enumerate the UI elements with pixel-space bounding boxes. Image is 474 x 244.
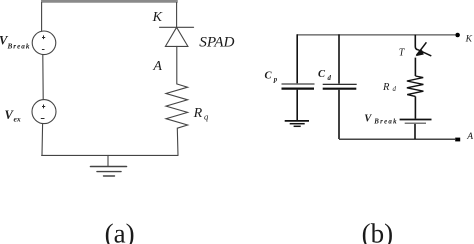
svg-text:q: q [204, 112, 209, 122]
svg-text:Break: Break [373, 118, 398, 125]
svg-text:(b): (b) [362, 219, 393, 244]
svg-text:T: T [399, 47, 406, 58]
svg-text:R: R [382, 82, 390, 93]
svg-text:C: C [265, 71, 273, 82]
svg-text:p: p [273, 76, 278, 83]
svg-text:K: K [465, 35, 473, 45]
svg-text:K: K [152, 10, 163, 25]
svg-text:SPAD: SPAD [199, 34, 234, 51]
svg-text:d: d [328, 75, 332, 82]
svg-text:A: A [466, 132, 473, 142]
svg-text:C: C [318, 69, 326, 80]
svg-text:V: V [364, 114, 372, 125]
svg-text:Break: Break [7, 42, 31, 50]
svg-text:R: R [193, 106, 203, 121]
svg-text:ex: ex [14, 114, 21, 123]
svg-text:A: A [152, 59, 162, 74]
svg-text:d: d [393, 86, 397, 93]
svg-text:(a): (a) [105, 219, 135, 244]
